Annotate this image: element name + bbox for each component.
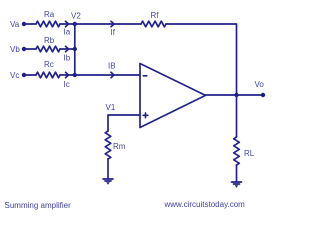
- svg-text:www.circuitstoday.com: www.circuitstoday.com: [164, 200, 246, 209]
- svg-text:Rc: Rc: [44, 60, 54, 69]
- wire V2 to Rf: [75, 23, 141, 25]
- svg-text:Vo: Vo: [255, 80, 265, 89]
- wire Rf to corner: [166, 24, 237, 95]
- resistor RL: [234, 137, 240, 165]
- op-amp minus sign: [143, 75, 147, 77]
- node V2: [73, 22, 77, 26]
- svg-text:Va: Va: [10, 20, 20, 29]
- arrow Ib: [66, 46, 69, 51]
- op-amp plus sign: [143, 113, 148, 118]
- wire Vc to Rc: [24, 74, 36, 76]
- terminal Va: [22, 22, 26, 26]
- resistor Rc: [36, 72, 60, 78]
- arrow IB: [111, 72, 114, 77]
- svg-text:If: If: [111, 28, 116, 37]
- svg-text:Vc: Vc: [10, 71, 19, 80]
- svg-text:Ib: Ib: [64, 54, 71, 63]
- svg-text:Rf: Rf: [151, 11, 160, 20]
- wire output node to RL: [236, 95, 238, 137]
- arrow If: [111, 21, 114, 26]
- wire op-amp plus input to V1: [108, 115, 140, 131]
- wire RL to ground: [236, 165, 238, 182]
- svg-text:Ia: Ia: [64, 28, 71, 37]
- arrow Ia: [66, 21, 69, 26]
- arrow Ic: [66, 72, 69, 77]
- resistor Rm: [105, 131, 111, 159]
- terminal Vc: [22, 73, 26, 77]
- junction dot row c: [73, 73, 77, 77]
- wire Rm to ground: [107, 159, 109, 179]
- wire Ra to node V2: [60, 23, 75, 25]
- terminal Vb: [22, 47, 26, 51]
- svg-text:IB: IB: [108, 62, 116, 71]
- svg-text:RL: RL: [244, 149, 255, 158]
- svg-text:Rb: Rb: [44, 36, 55, 45]
- junction dot row b: [73, 47, 77, 51]
- wire Rc to bus: [60, 74, 75, 76]
- ground for RL: [232, 182, 242, 188]
- wire Rb to bus: [60, 48, 75, 50]
- ground for Rm: [103, 179, 113, 185]
- resistor Ra: [36, 21, 60, 27]
- wire Va to Ra: [24, 23, 36, 25]
- svg-text:V1: V1: [106, 103, 116, 112]
- svg-text:Rm: Rm: [113, 142, 126, 151]
- resistor Rf: [141, 21, 166, 27]
- wire Vb to Rb: [24, 48, 36, 50]
- svg-text:V2: V2: [71, 12, 81, 21]
- junction dot output node: [234, 93, 238, 97]
- svg-text:Vb: Vb: [10, 45, 20, 54]
- terminal Vo: [261, 93, 265, 97]
- svg-text:Ic: Ic: [64, 80, 70, 89]
- op-amp U1: [140, 64, 206, 128]
- wire bus to op-amp inverting input: [75, 74, 140, 76]
- svg-text:Ra: Ra: [44, 10, 55, 19]
- wire bus vertical: [74, 24, 76, 75]
- svg-text:Summing amplifier: Summing amplifier: [5, 201, 72, 210]
- wire op-amp output to Vo: [206, 94, 264, 96]
- resistor Rb: [36, 46, 60, 52]
